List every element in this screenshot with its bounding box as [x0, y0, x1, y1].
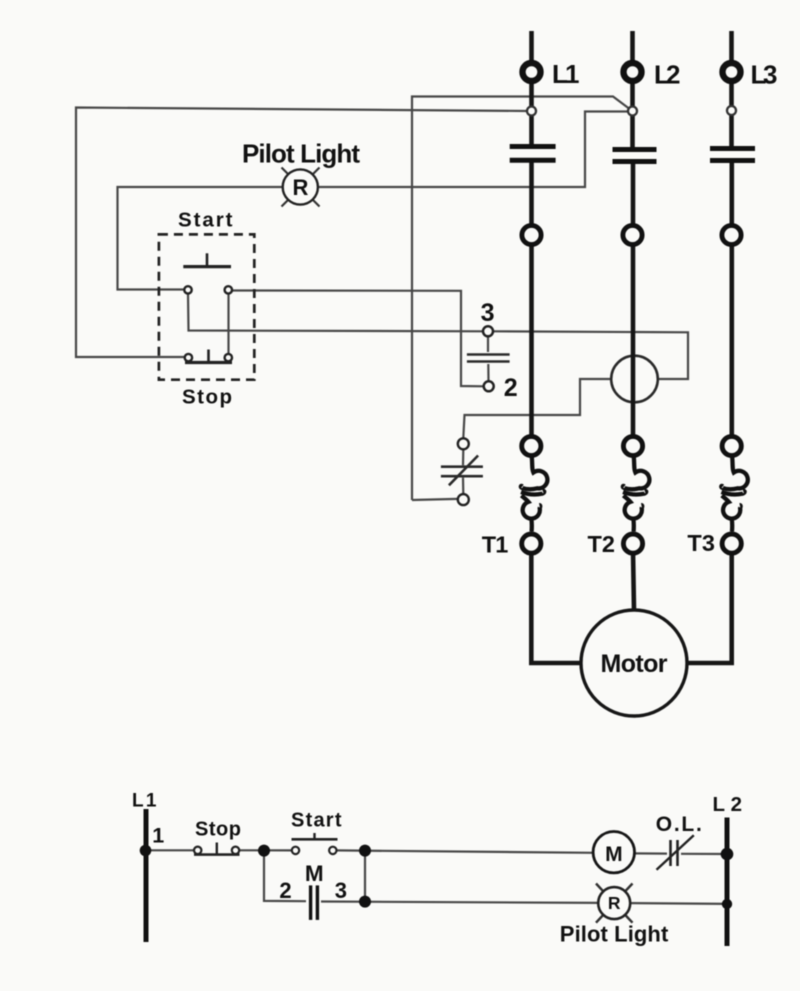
svg-text:2: 2	[504, 374, 518, 402]
svg-text:Stop: Stop	[182, 386, 232, 409]
svg-text:L1: L1	[552, 59, 580, 89]
svg-text:L2: L2	[654, 60, 681, 90]
svg-text:T2: T2	[588, 531, 616, 557]
svg-text:M: M	[605, 843, 623, 866]
svg-text:Pilot Light: Pilot Light	[560, 922, 669, 947]
svg-text:Pilot Light: Pilot Light	[242, 139, 360, 169]
svg-text:Start: Start	[291, 810, 342, 832]
svg-text:Motor: Motor	[601, 650, 668, 678]
svg-text:Stop: Stop	[195, 819, 241, 841]
svg-text:R: R	[608, 893, 621, 913]
svg-text:L3: L3	[751, 60, 778, 90]
svg-text:T3: T3	[687, 530, 715, 556]
svg-text:M: M	[305, 861, 324, 886]
svg-text:T1: T1	[482, 532, 509, 558]
svg-text:3: 3	[335, 878, 347, 903]
svg-text:2: 2	[279, 878, 291, 903]
svg-text:3: 3	[481, 299, 495, 327]
svg-text:1: 1	[152, 824, 164, 848]
svg-text:R: R	[293, 175, 309, 200]
